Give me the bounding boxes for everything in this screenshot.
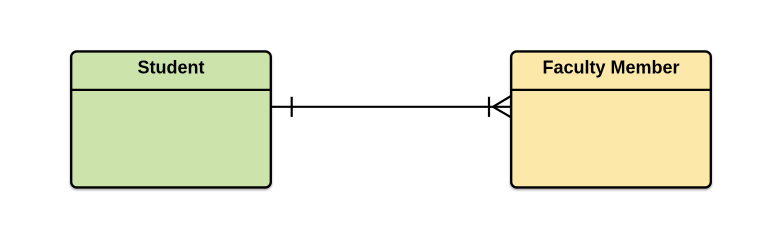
svg-text:Faculty Member: Faculty Member [542,57,679,77]
svg-text:Student: Student [138,57,205,77]
